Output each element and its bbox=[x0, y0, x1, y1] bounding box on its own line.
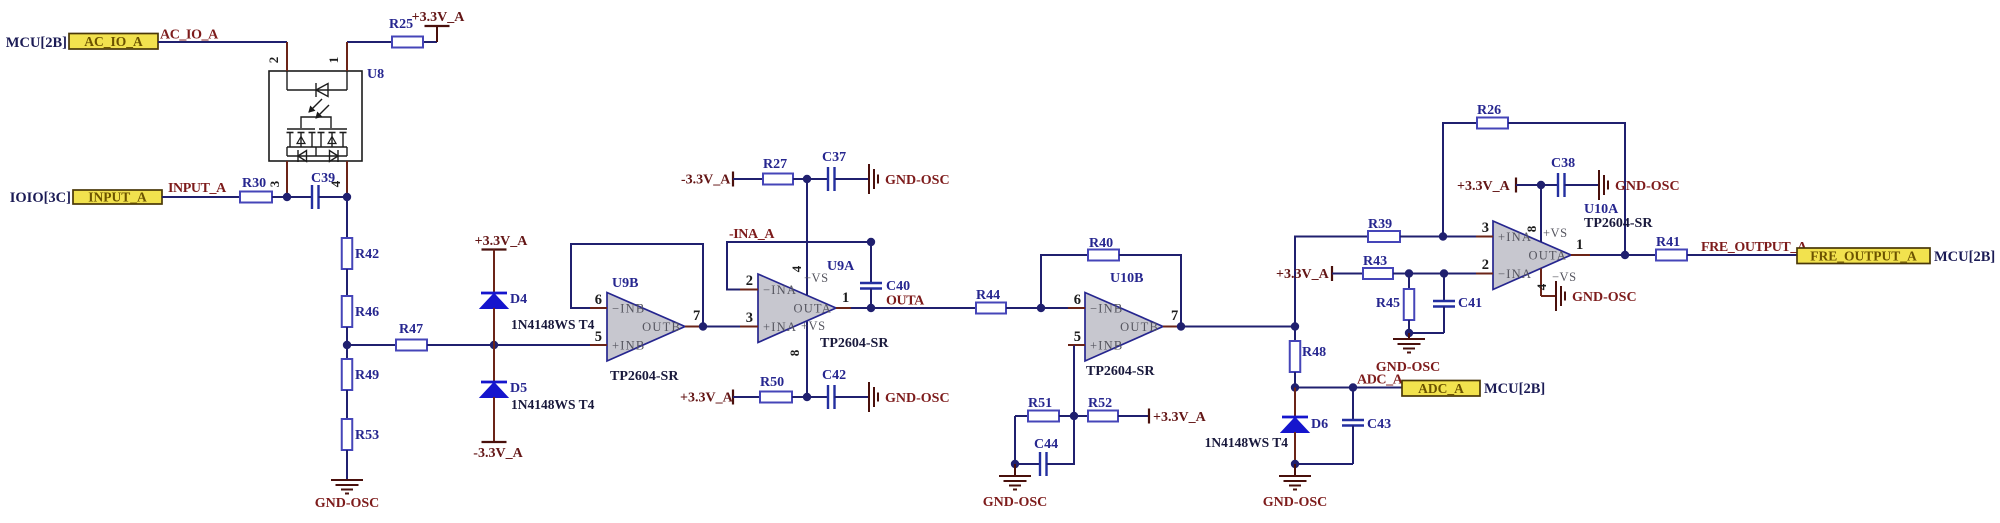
svg-text:R52: R52 bbox=[1088, 396, 1112, 411]
svg-text:GND-OSC: GND-OSC bbox=[315, 496, 380, 511]
svg-text:U9A: U9A bbox=[827, 259, 855, 274]
svg-text:ADC_A: ADC_A bbox=[1357, 373, 1404, 388]
wire U10B pin5 down bbox=[1073, 345, 1075, 416]
svg-text:+VS: +VS bbox=[1543, 226, 1568, 240]
svg-text:8: 8 bbox=[1524, 225, 1539, 232]
svg-text:C39: C39 bbox=[311, 171, 335, 186]
junction -VS node bbox=[803, 175, 811, 183]
wire R46-R49 bbox=[346, 327, 348, 359]
junction R45 top bbox=[1405, 269, 1413, 277]
ground GND-OSC at C38 bbox=[1599, 170, 1680, 200]
U10A pin 3 bbox=[1476, 220, 1493, 237]
U10A pin 2 bbox=[1476, 257, 1493, 274]
svg-text:-INA_A: -INA_A bbox=[729, 227, 775, 242]
svg-text:U9B: U9B bbox=[612, 276, 638, 291]
resistor R26 bbox=[1477, 103, 1508, 129]
svg-text:1: 1 bbox=[1576, 237, 1583, 253]
U10A pin 8 +VS bbox=[1524, 185, 1568, 242]
svg-text:+3.3V_A: +3.3V_A bbox=[412, 10, 466, 25]
wire R48 to ADC node bbox=[1294, 372, 1296, 388]
svg-text:AC_IO_A: AC_IO_A bbox=[160, 28, 219, 43]
wire OUTA to R44 bbox=[851, 307, 976, 309]
svg-text:C44: C44 bbox=[1034, 437, 1058, 452]
svg-text:2: 2 bbox=[1482, 257, 1489, 273]
wire R41 to port bbox=[1687, 254, 1797, 256]
svg-text:1: 1 bbox=[326, 57, 341, 64]
port FRE_OUTPUT_A to MCU[2B] bbox=[1797, 248, 1995, 265]
resistor R48 bbox=[1290, 327, 1326, 373]
wire C37 to ground bbox=[835, 178, 870, 180]
port ADC_A to MCU[2B] bbox=[1402, 381, 1545, 398]
capacitor C38 bbox=[1551, 156, 1575, 197]
svg-text:R48: R48 bbox=[1302, 345, 1326, 360]
U10B pin 6 bbox=[1068, 292, 1085, 308]
svg-text:R49: R49 bbox=[355, 368, 379, 383]
optocoupler U8 body bbox=[269, 67, 384, 161]
wire INPUT_A to R30 bbox=[162, 196, 240, 198]
junction U10B input bbox=[1037, 304, 1045, 312]
svg-text:C37: C37 bbox=[822, 150, 846, 165]
svg-text:OUTA: OUTA bbox=[1528, 249, 1567, 263]
svg-text:MCU[2B]: MCU[2B] bbox=[1934, 249, 1995, 265]
svg-text:TP2604-SR: TP2604-SR bbox=[1086, 364, 1155, 379]
wire R50 to C42 bbox=[792, 396, 828, 398]
svg-text:R46: R46 bbox=[355, 305, 379, 320]
U8 pin 2 bbox=[266, 42, 287, 71]
U8 light arrows bbox=[309, 99, 329, 118]
svg-text:4: 4 bbox=[789, 265, 804, 272]
resistor R41 bbox=[1656, 235, 1687, 261]
resistor R51 bbox=[1028, 396, 1059, 422]
svg-text:R39: R39 bbox=[1368, 217, 1392, 232]
svg-text:C41: C41 bbox=[1458, 296, 1482, 311]
svg-text:R53: R53 bbox=[355, 428, 379, 443]
svg-text:MCU[2B]: MCU[2B] bbox=[6, 35, 67, 51]
junction R45 bottom bbox=[1405, 329, 1413, 337]
wire AC_IO_A to U8 pin2 bbox=[158, 41, 287, 43]
op-amp U10B bbox=[1085, 271, 1163, 379]
svg-text:U8: U8 bbox=[367, 67, 384, 82]
junction at pin4 bbox=[343, 193, 351, 201]
U8 pin 1 bbox=[326, 42, 347, 71]
svg-text:TP2604-SR: TP2604-SR bbox=[610, 369, 679, 384]
svg-text:R47: R47 bbox=[399, 322, 423, 337]
U9A pin 3 bbox=[740, 310, 758, 327]
svg-text:6: 6 bbox=[595, 292, 602, 308]
svg-text:+INA: +INA bbox=[763, 320, 797, 334]
svg-text:2: 2 bbox=[266, 57, 281, 64]
port MCU[2B] with AC_IO_A bbox=[6, 34, 158, 52]
junction at pin3 bbox=[283, 193, 291, 201]
resistor R50 bbox=[760, 375, 792, 403]
svg-text:+INB: +INB bbox=[612, 339, 645, 353]
svg-text:R25: R25 bbox=[389, 17, 413, 32]
svg-text:TP2604-SR: TP2604-SR bbox=[1584, 216, 1653, 231]
svg-text:+INB: +INB bbox=[1090, 339, 1123, 353]
svg-text:4: 4 bbox=[1534, 283, 1549, 290]
U10B pin 7 output bbox=[1163, 308, 1181, 327]
U8 pin 4 bbox=[328, 161, 347, 197]
svg-text:C40: C40 bbox=[886, 279, 910, 294]
svg-text:6: 6 bbox=[1074, 292, 1081, 308]
svg-text:+3.3V_A: +3.3V_A bbox=[1276, 267, 1330, 282]
power +3.3V_A at R50 bbox=[680, 390, 734, 406]
wire R26 to output bbox=[1508, 123, 1625, 255]
svg-text:−INA: −INA bbox=[1498, 267, 1532, 281]
U8 internal MOSFET pair bbox=[287, 117, 348, 156]
svg-text:1: 1 bbox=[842, 290, 849, 306]
svg-text:3: 3 bbox=[267, 180, 282, 187]
junction OUTA bbox=[867, 304, 875, 312]
op-amp U10A bbox=[1493, 202, 1653, 290]
wire R42-R46 bbox=[346, 269, 348, 296]
resistor R53 bbox=[342, 419, 379, 450]
U9B feedback wire bbox=[571, 244, 703, 327]
capacitor C44 bbox=[1034, 437, 1058, 476]
svg-text:FRE_OUTPUT_A: FRE_OUTPUT_A bbox=[1810, 249, 1917, 264]
resistor R44 bbox=[976, 288, 1006, 314]
svg-text:INPUT_A: INPUT_A bbox=[168, 181, 227, 196]
U8 internal protection diodes bbox=[287, 150, 347, 162]
resistor R49 bbox=[342, 359, 379, 390]
op-amp U9B bbox=[607, 276, 685, 384]
U9A pin 2 bbox=[740, 273, 758, 290]
wire R51 to junction bbox=[1059, 415, 1088, 417]
U10A pin 4 -VS bbox=[1534, 269, 1577, 297]
feedback wire right bbox=[1119, 255, 1181, 327]
svg-text:−INB: −INB bbox=[612, 302, 645, 316]
svg-text:5: 5 bbox=[1074, 329, 1081, 345]
wire to R43 bbox=[1332, 273, 1363, 275]
U10A pin 1 output bbox=[1571, 237, 1590, 255]
svg-text:+3.3V_A: +3.3V_A bbox=[1153, 410, 1207, 425]
svg-text:GND-OSC: GND-OSC bbox=[1572, 290, 1637, 305]
junction R51/R52 bbox=[1070, 412, 1078, 420]
wire R27 to C37 bbox=[793, 178, 828, 180]
svg-text:+3.3V_A: +3.3V_A bbox=[1457, 179, 1511, 194]
wire D4 to node to D5 bbox=[493, 308, 495, 382]
wire R44 to U10B pin6 bbox=[1006, 307, 1068, 309]
wire R39 to U10A pin3 bbox=[1400, 236, 1476, 238]
wire to R51 bbox=[1015, 415, 1028, 417]
wire R30 to C39 bbox=[272, 196, 312, 198]
U9A feedback wire bbox=[727, 242, 871, 290]
U10A pin4 ground GND-OSC bbox=[1541, 281, 1637, 311]
wire C39 to pin4 node bbox=[319, 196, 348, 198]
svg-text:C42: C42 bbox=[822, 368, 846, 383]
junction C41 top bbox=[1440, 269, 1448, 277]
wire U9B out to U9A pin3 bbox=[703, 326, 740, 328]
wire C41 bottom to ground node bbox=[1409, 332, 1444, 334]
resistor R40 bbox=[1088, 236, 1119, 261]
junction R48 top bbox=[1291, 322, 1299, 330]
wire to R50 bbox=[733, 396, 760, 398]
wire C43 bottom to ground node bbox=[1295, 463, 1353, 465]
svg-text:-3.3V_A: -3.3V_A bbox=[473, 446, 523, 461]
diode D4 bbox=[480, 292, 527, 309]
capacitor C40 in feedback bbox=[860, 242, 910, 308]
svg-text:GND-OSC: GND-OSC bbox=[1615, 179, 1680, 194]
svg-text:MCU[2B]: MCU[2B] bbox=[1484, 381, 1545, 397]
resistor R52 bbox=[1088, 396, 1118, 422]
U10B feedback wire with R40 bbox=[1041, 255, 1088, 308]
svg-text:R45: R45 bbox=[1376, 296, 1400, 311]
op-amp U9A bbox=[758, 259, 889, 351]
power +3.3V_A at R25 bbox=[412, 10, 466, 42]
svg-text:OUTB: OUTB bbox=[642, 320, 681, 334]
svg-text:INPUT_A: INPUT_A bbox=[88, 190, 147, 205]
wire C42 to ground bbox=[835, 396, 870, 398]
svg-text:8: 8 bbox=[787, 349, 802, 356]
U9B pin 7 output bbox=[685, 308, 703, 327]
svg-text:3: 3 bbox=[746, 310, 753, 326]
wire to C38 bbox=[1516, 184, 1558, 186]
wire ADC node to port bbox=[1295, 387, 1402, 389]
svg-text:OUTB: OUTB bbox=[1120, 320, 1159, 334]
resistor R39 bbox=[1368, 217, 1400, 242]
wire to R27 bbox=[733, 178, 763, 180]
wire R43 to U10A pin2 bbox=[1393, 273, 1476, 275]
power +3.3V_A at R43 bbox=[1276, 266, 1332, 282]
power +3.3V_A at D4 bbox=[475, 234, 529, 293]
resistor R27 bbox=[763, 157, 793, 185]
ground GND-OSC at C44 bbox=[983, 464, 1048, 510]
svg-text:R40: R40 bbox=[1089, 236, 1113, 251]
svg-text:−VS: −VS bbox=[804, 271, 829, 285]
resistor R25 bbox=[389, 17, 423, 48]
svg-text:D5: D5 bbox=[510, 381, 527, 396]
capacitor C41 bbox=[1433, 274, 1482, 334]
svg-text:FRE_OUTPUT_A: FRE_OUTPUT_A bbox=[1701, 240, 1808, 255]
svg-text:U10A: U10A bbox=[1584, 202, 1619, 217]
svg-text:1N4148WS T4: 1N4148WS T4 bbox=[1205, 435, 1289, 450]
wire U8 pin1 to R25 bbox=[347, 41, 392, 43]
svg-text:2: 2 bbox=[746, 273, 753, 289]
resistor R43 bbox=[1363, 254, 1393, 279]
diode D5 bbox=[480, 381, 527, 398]
wire R26 loop bbox=[1443, 123, 1477, 237]
U10B pin 5 bbox=[1068, 329, 1085, 345]
junction U10B output bbox=[1177, 322, 1185, 330]
svg-text:R44: R44 bbox=[976, 288, 1000, 303]
U9B pin 5 bbox=[590, 329, 607, 345]
svg-text:D4: D4 bbox=[510, 292, 527, 307]
wire R51 left down to C44 bbox=[1015, 416, 1040, 464]
svg-text:+VS: +VS bbox=[801, 319, 826, 333]
junction R26 output tap bbox=[1621, 251, 1629, 259]
U9A pin 1 output bbox=[836, 290, 851, 308]
svg-text:R27: R27 bbox=[763, 157, 787, 172]
svg-text:5: 5 bbox=[595, 329, 602, 345]
wire C38 to ground bbox=[1565, 184, 1600, 186]
wire R47 to diode node and U9B pin5 bbox=[427, 344, 590, 346]
wire node to R47 bbox=[347, 344, 396, 346]
capacitor C37 bbox=[822, 150, 846, 191]
junction C43 top bbox=[1349, 383, 1357, 391]
svg-text:ADC_A: ADC_A bbox=[1418, 381, 1464, 396]
ground GND-OSC at D6 bbox=[1263, 464, 1328, 510]
U9A pin 8 +VS bbox=[787, 319, 826, 397]
junction +VS node bbox=[803, 393, 811, 401]
diode D6 bbox=[1281, 388, 1328, 433]
svg-text:R50: R50 bbox=[760, 375, 784, 390]
power +3.3V_A at R52 bbox=[1149, 409, 1207, 426]
svg-text:R43: R43 bbox=[1363, 254, 1387, 269]
svg-text:-3.3V_A: -3.3V_A bbox=[681, 173, 731, 188]
svg-text:C43: C43 bbox=[1367, 417, 1391, 432]
svg-text:GND-OSC: GND-OSC bbox=[1263, 495, 1328, 510]
power -3.3V_A at R27 bbox=[681, 172, 733, 188]
resistor R45 bbox=[1376, 274, 1414, 321]
wire D6 to ground node bbox=[1294, 432, 1296, 464]
ground GND-OSC under R53 bbox=[315, 480, 380, 511]
svg-text:OUTA: OUTA bbox=[886, 294, 925, 309]
svg-text:AC_IO_A: AC_IO_A bbox=[84, 34, 143, 49]
wire R45 to ground node bbox=[1408, 320, 1410, 333]
junction +VS U10A bbox=[1537, 181, 1545, 189]
wire R49-R53 bbox=[346, 390, 348, 419]
wire U10A out to R41 bbox=[1590, 254, 1656, 256]
svg-text:IOIO[3C]: IOIO[3C] bbox=[10, 190, 71, 206]
svg-text:TP2604-SR: TP2604-SR bbox=[820, 336, 889, 351]
junction diode node bbox=[490, 341, 498, 349]
svg-text:R42: R42 bbox=[355, 247, 379, 262]
U9B pin 6 bbox=[590, 292, 607, 308]
ground GND-OSC at R45 bbox=[1376, 333, 1441, 375]
svg-text:D6: D6 bbox=[1311, 417, 1328, 432]
U8 pin 3 bbox=[267, 161, 287, 197]
capacitor C43 bbox=[1342, 388, 1391, 465]
ground GND-OSC at C42 bbox=[869, 382, 950, 412]
U9A pin 4 -VS bbox=[789, 179, 829, 295]
wire C44 to pin5 branch bbox=[1047, 416, 1075, 464]
svg-text:+3.3V_A: +3.3V_A bbox=[475, 234, 529, 249]
resistor R42 bbox=[342, 238, 379, 269]
svg-text:7: 7 bbox=[693, 308, 700, 324]
ground GND-OSC at C37 bbox=[869, 164, 950, 194]
svg-text:−INB: −INB bbox=[1090, 302, 1123, 316]
wire R52 to power bbox=[1118, 415, 1149, 417]
resistor R30 bbox=[240, 176, 272, 203]
svg-text:1N4148WS T4: 1N4148WS T4 bbox=[511, 317, 595, 332]
svg-text:−INA: −INA bbox=[763, 283, 797, 297]
svg-text:R26: R26 bbox=[1477, 103, 1501, 118]
svg-text:R30: R30 bbox=[242, 176, 266, 191]
power +3.3V_A at C38 bbox=[1457, 178, 1516, 195]
svg-text:R41: R41 bbox=[1656, 235, 1680, 250]
svg-text:GND-OSC: GND-OSC bbox=[885, 173, 950, 188]
power -3.3V_A at D5 bbox=[473, 397, 523, 461]
resistor R46 bbox=[342, 296, 379, 327]
svg-text:3: 3 bbox=[1482, 220, 1489, 236]
svg-text:U10B: U10B bbox=[1110, 271, 1143, 286]
wire R53 to ground bbox=[346, 450, 348, 480]
svg-text:7: 7 bbox=[1171, 308, 1178, 324]
port IOIO[3C] with INPUT_A bbox=[10, 190, 162, 207]
svg-text:C38: C38 bbox=[1551, 156, 1575, 171]
svg-text:1N4148WS T4: 1N4148WS T4 bbox=[511, 397, 595, 412]
junction feedback top bbox=[867, 238, 875, 246]
junction D6 bottom bbox=[1291, 460, 1299, 468]
wire up to R39 bbox=[1295, 237, 1368, 327]
U8 internal LED bbox=[287, 71, 347, 97]
junction U9B output bbox=[699, 322, 707, 330]
svg-text:R51: R51 bbox=[1028, 396, 1052, 411]
resistor R47 bbox=[396, 322, 427, 351]
U10B pin5 stub bbox=[1068, 344, 1074, 346]
wire U10B out to R48 node bbox=[1181, 326, 1295, 328]
capacitor C42 bbox=[822, 368, 846, 409]
capacitor C39 bbox=[311, 171, 335, 209]
junction R26 tap bbox=[1439, 232, 1447, 240]
svg-text:GND-OSC: GND-OSC bbox=[885, 391, 950, 406]
svg-text:+3.3V_A: +3.3V_A bbox=[680, 391, 734, 406]
junction C44 ground node bbox=[1011, 460, 1019, 468]
wire down to R42 bbox=[346, 197, 348, 238]
junction divider node bbox=[343, 341, 351, 349]
svg-text:GND-OSC: GND-OSC bbox=[983, 495, 1048, 510]
junction ADC node bbox=[1291, 383, 1299, 391]
svg-text:OUTA: OUTA bbox=[793, 302, 832, 316]
